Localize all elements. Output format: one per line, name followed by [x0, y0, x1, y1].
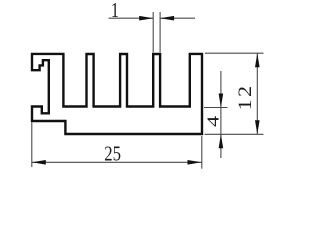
- left extension line (25): [31, 123, 33, 168]
- svg-text:1: 1: [111, 0, 119, 23]
- extension line fin C right: [159, 12, 161, 52]
- dim 12 line: [256, 53, 258, 134]
- extension line fin C left: [152, 12, 154, 52]
- bottom extension line (12/4): [205, 133, 264, 135]
- arrow dim1 left (points right): [139, 16, 153, 21]
- arrow dim25 left (points left): [32, 160, 46, 165]
- base-top extension line (4): [204, 107, 228, 109]
- svg-text:25: 25: [104, 143, 121, 166]
- top extension line (12): [205, 52, 264, 54]
- arrow dim4 bottom (points up): [219, 134, 224, 148]
- arrow dim4 top (points down): [219, 94, 224, 108]
- dim 4 lower shaft: [220, 134, 222, 158]
- dim 25 line: [32, 161, 202, 163]
- svg-text:4: 4: [204, 116, 223, 127]
- arrow dim12 bottom (points down): [255, 120, 260, 134]
- svg-text:12: 12: [234, 84, 255, 111]
- arrow dim1 right (points left): [160, 16, 174, 21]
- dim 4 upper shaft: [220, 71, 222, 108]
- dim 1 right tail: [160, 17, 195, 19]
- heatsink profile outline: [32, 54, 202, 134]
- arrow dim25 right (points right): [188, 160, 202, 165]
- dim 4 middle segment: [220, 108, 222, 135]
- dim 1 left tail: [109, 17, 154, 19]
- arrow dim12 top (points up): [255, 53, 260, 67]
- right extension line (25): [201, 136, 203, 169]
